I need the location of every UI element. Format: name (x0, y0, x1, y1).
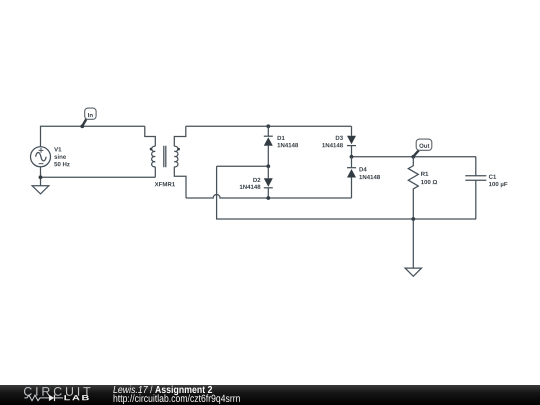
ground (V1 negative) (32, 177, 49, 194)
wire: negative branch to bottom rail (217, 166, 476, 219)
label R1 100 Ohm (421, 172, 428, 176)
label C1 100 uF (489, 175, 496, 179)
junction: D2 cathode node (266, 196, 270, 200)
label V1 / sine / 50 Hz (54, 147, 61, 151)
capacitor C1 (465, 157, 486, 219)
diode D2 (264, 166, 273, 198)
net flag Out (413, 139, 432, 156)
transformer XFMR1 (145, 126, 186, 198)
wire: D1 cathode to D2 anode mid rail (217, 165, 269, 167)
junction: V1 negative node (39, 175, 43, 179)
diode D4 (347, 157, 356, 198)
diode D3 (347, 126, 356, 157)
junction: Out node between D3 and D4 (350, 155, 354, 159)
footer title: user / project (113, 386, 148, 393)
wire: In rail from V1 top to XFMR1 primary top (41, 126, 145, 147)
net flag In (82, 108, 96, 126)
label D1 1N4148 (278, 136, 285, 140)
label D2 1N4148 (253, 178, 260, 182)
wire: secondary top rail to D3 (186, 125, 352, 127)
CircuitLab logo waveform glyph (24, 395, 63, 401)
label XFMR1 (155, 182, 175, 186)
CircuitLab logo LAB (64, 395, 88, 400)
ground (output) (405, 219, 421, 276)
junction: In flag node (80, 124, 84, 128)
junction: R1 bottom / ground node (411, 217, 415, 221)
junction: D1 anode node (266, 124, 270, 128)
footer bar (0, 385, 540, 405)
wire: Out rail from D3-D4 node to C1 (352, 156, 477, 158)
junction: Out flag node (411, 155, 415, 159)
wire: V1 bottom to XFMR1 primary bottom (41, 167, 156, 178)
resistor R1 (408, 157, 418, 219)
CircuitLab logo wordmark CIRCUIT (24, 387, 90, 396)
diode D1 (264, 126, 273, 166)
junction: D1-D2 node (266, 164, 270, 168)
wire: secondary bottom rail with hop over branch (186, 195, 352, 198)
footer url (114, 394, 240, 404)
label D3 1N4148 (336, 136, 343, 140)
voltage source V1 (31, 147, 51, 167)
label D4 1N4148 (359, 167, 366, 171)
